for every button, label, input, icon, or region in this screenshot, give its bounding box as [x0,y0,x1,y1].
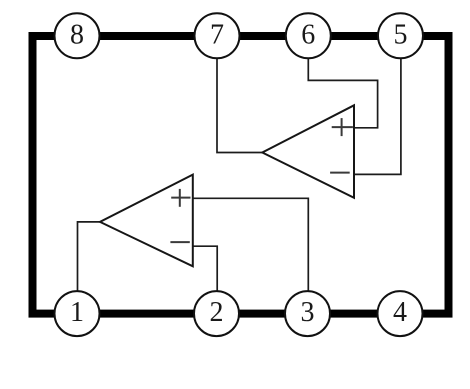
U2 non-inverting input plus mark [171,189,190,207]
pin 8 [55,13,100,58]
pin 4 [378,291,423,336]
wire: op-amp U2 non-inverting input to pin 3 [193,198,308,292]
svg-text:4: 4 [393,297,407,328]
svg-text:1: 1 [70,297,84,328]
svg-text:5: 5 [394,19,408,50]
wire: op-amp U1 output to pin 7 [217,57,262,153]
svg-text:8: 8 [70,19,84,50]
pin 3 [285,291,330,336]
svg-text:3: 3 [301,297,315,328]
IC package outline (8-pin DIP body) [33,36,449,314]
svg-text:7: 7 [210,19,224,50]
svg-text:2: 2 [210,297,224,328]
U1 inverting input minus mark [330,172,350,174]
U1 non-inverting input plus mark [332,118,353,136]
pin 7 [195,13,240,58]
U2 inverting input minus mark [170,241,189,243]
wire: pin 6 to op-amp U1 non-inverting input [308,57,377,128]
pin 1 [55,291,100,336]
wire: pin 5 to op-amp U1 inverting input [354,57,401,174]
pin 6 [286,13,331,58]
op-amp U1 (pins 5,6,7) triangle [262,105,354,198]
svg-text:6: 6 [301,19,315,50]
pin 2 [194,291,239,336]
wire: op-amp U2 output to pin 1 [78,222,101,292]
pin 5 [378,13,423,58]
op-amp U2 (pins 1,2,3) triangle [100,175,193,267]
wire: op-amp U2 inverting input to pin 2 [193,246,217,292]
